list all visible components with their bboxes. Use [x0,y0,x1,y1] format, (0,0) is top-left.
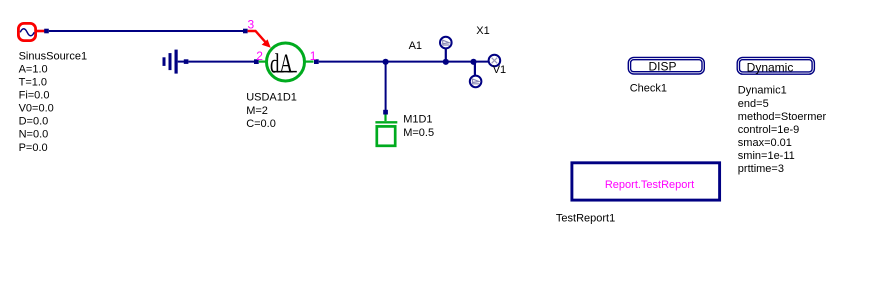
svg-text:Dynamic1: Dynamic1 [738,85,787,97]
junction node at A1 sensor [443,59,449,65]
svg-text:D=0.0: D=0.0 [19,116,49,128]
svg-text:DISP: DISP [648,60,676,74]
sensor X (V1) at wire end [489,55,501,67]
svg-text:smin=1e-11: smin=1e-11 [738,150,795,162]
Dynamic block [737,57,814,74]
sensor gauge A1 above wire [440,37,452,62]
svg-text:N=0.0: N=0.0 [19,129,49,141]
svg-text:end=5: end=5 [738,98,769,110]
wire down to M1D1 [385,62,387,111]
svg-text:T=1.0: T=1.0 [19,77,47,89]
inertia symbol M1D1 [375,115,397,146]
svg-text:Dynamic: Dynamic [747,60,794,74]
svg-text:Check1: Check1 [630,83,667,95]
junction node at lower sensor [470,59,476,65]
svg-text:M1D1: M1D1 [403,114,432,126]
svg-text:dA: dA [270,47,293,78]
svg-text:Fi=0.0: Fi=0.0 [19,90,50,102]
op-amp style block USDA1D1 (dA symbol) [259,43,314,81]
svg-text:smax=0.01: smax=0.01 [738,137,792,149]
wire from dA pin 1 to sensor X [319,61,489,63]
svg-text:V1: V1 [493,64,506,76]
svg-text:C=0.0: C=0.0 [246,118,276,130]
pin square at source output [44,29,49,34]
pin square M1D1 [383,110,388,115]
ground symbol [163,50,187,74]
svg-text:A=1.0: A=1.0 [19,63,48,75]
svg-text:control=1e-9: control=1e-9 [738,124,799,136]
svg-text:M=0.5: M=0.5 [403,127,434,139]
sensor gauge below wire [470,62,482,88]
pin square dA pin 2 [254,59,259,64]
pin square at ground [184,59,189,64]
pin square node 3 [243,29,248,34]
wire from source to node 3 [49,30,244,32]
svg-text:USDA1D1: USDA1D1 [246,92,297,104]
Report block TestReport [572,163,720,200]
svg-text:V0=0.0: V0=0.0 [19,103,54,115]
svg-text:Report.TestReport: Report.TestReport [605,179,694,191]
svg-text:M=2: M=2 [246,105,268,117]
svg-text:X1: X1 [476,25,489,37]
svg-text:prttime=3: prttime=3 [738,163,784,175]
svg-text:P=0.0: P=0.0 [19,142,48,154]
svg-text:A1: A1 [409,40,422,52]
junction node at M1D1 branch [383,59,389,65]
svg-text:method=Stoermer: method=Stoermer [738,111,827,123]
DISP block [628,57,704,74]
svg-text:TestReport1: TestReport1 [556,213,615,225]
svg-text:SinusSource1: SinusSource1 [19,50,88,62]
sine source SinusSource1 [18,23,45,40]
svg-text:3: 3 [248,17,255,31]
svg-text:1: 1 [310,49,317,63]
red connection arrow to dA [248,31,271,48]
pin square dA pin 1 [314,59,319,64]
wire from ground to dA pin 2 [188,61,254,63]
